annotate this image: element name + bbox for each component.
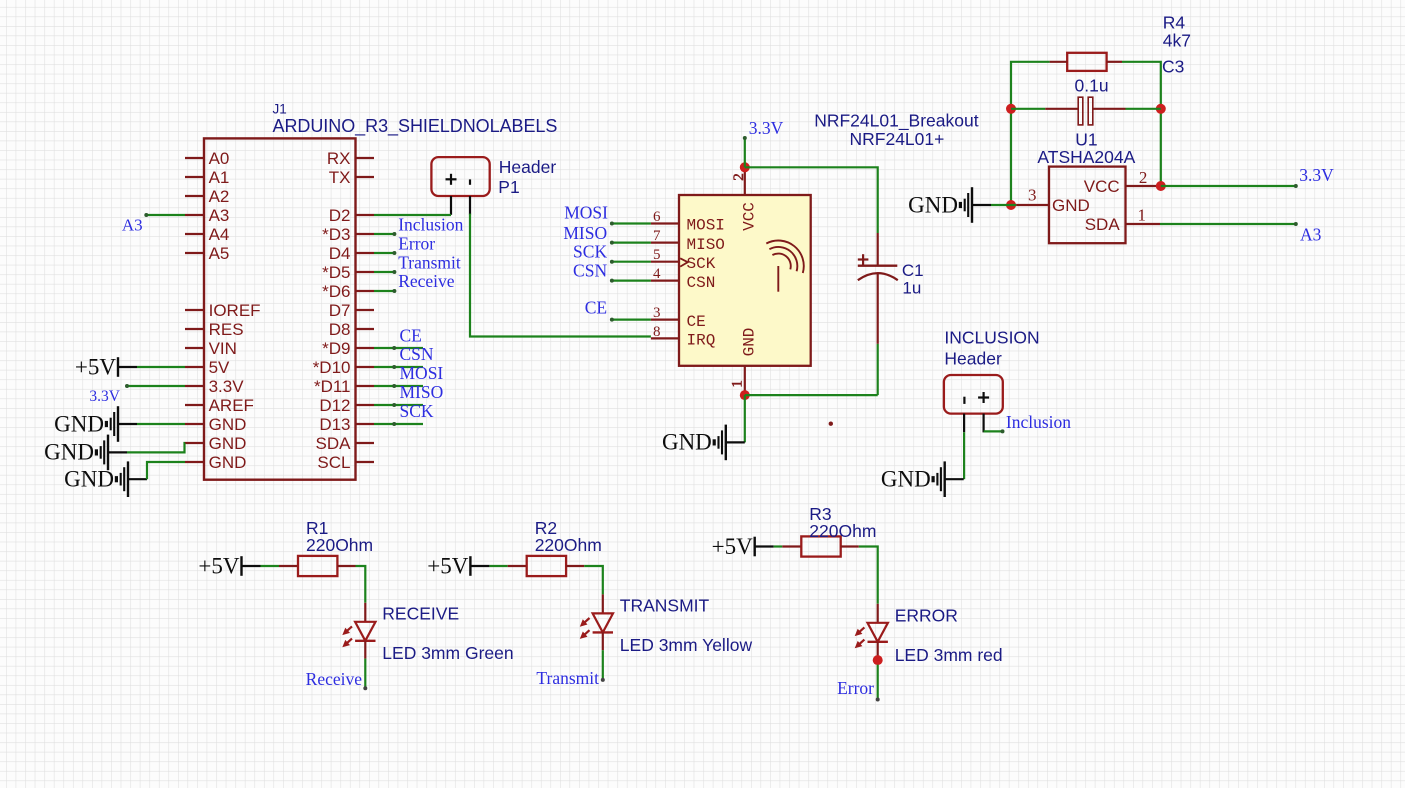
svg-text:A2: A2 [209, 187, 230, 206]
svg-text:TRANSMIT: TRANSMIT [620, 596, 710, 616]
svg-text:+5V: +5V [427, 553, 468, 578]
svg-text:GND: GND [662, 430, 712, 455]
svg-text:D2: D2 [329, 206, 351, 225]
svg-text:LED 3mm red: LED 3mm red [895, 645, 1003, 665]
svg-text:*D5: *D5 [322, 263, 350, 282]
svg-text:LED 3mm Green: LED 3mm Green [382, 643, 513, 663]
svg-text:SCK: SCK [687, 255, 716, 273]
svg-text:+5V: +5V [198, 553, 239, 578]
svg-text:GND: GND [54, 411, 104, 436]
svg-text:GND: GND [1052, 196, 1090, 215]
svg-text:4k7: 4k7 [1163, 31, 1191, 51]
svg-text:SCK: SCK [573, 242, 607, 262]
svg-text:MOSI: MOSI [564, 203, 608, 223]
svg-text:P1: P1 [498, 177, 519, 197]
svg-text:TX: TX [329, 168, 351, 187]
svg-text:3.3V: 3.3V [89, 388, 120, 405]
svg-text:GND: GND [908, 192, 958, 217]
svg-text:1: 1 [730, 380, 746, 388]
svg-text:CSN: CSN [400, 344, 434, 364]
svg-text:GND: GND [64, 467, 114, 492]
svg-text:RX: RX [327, 149, 351, 168]
svg-text:Header: Header [499, 157, 557, 177]
svg-text:5V: 5V [209, 358, 230, 377]
svg-text:Receive: Receive [398, 271, 455, 291]
svg-text:GND: GND [881, 467, 931, 492]
svg-text:MISO: MISO [563, 223, 607, 243]
svg-text:SCL: SCL [317, 453, 350, 472]
svg-text:SDA: SDA [316, 434, 352, 453]
svg-text:A3: A3 [1300, 225, 1322, 245]
svg-text:D8: D8 [329, 320, 351, 339]
svg-text:D7: D7 [329, 301, 351, 320]
svg-text:*D11: *D11 [314, 377, 351, 396]
svg-text:C3: C3 [1162, 57, 1184, 77]
svg-text:VCC: VCC [1084, 177, 1120, 196]
svg-text:*D3: *D3 [322, 225, 350, 244]
svg-text:6: 6 [653, 209, 661, 225]
svg-text:INCLUSION: INCLUSION [944, 328, 1039, 348]
svg-text:C1: C1 [902, 261, 924, 280]
svg-text:3: 3 [1028, 186, 1037, 205]
svg-text:5: 5 [653, 247, 661, 263]
svg-text:MOSI: MOSI [687, 217, 725, 235]
svg-text:A3: A3 [122, 216, 143, 235]
svg-text:*D10: *D10 [313, 358, 351, 377]
svg-text:Receive: Receive [306, 669, 363, 689]
svg-text:Error: Error [837, 678, 874, 698]
svg-text:4: 4 [653, 266, 661, 282]
svg-text:220Ohm: 220Ohm [306, 535, 373, 555]
svg-text:0.1u: 0.1u [1075, 76, 1109, 96]
svg-text:2: 2 [731, 173, 747, 181]
svg-text:AREF: AREF [209, 396, 254, 415]
svg-text:ATSHA204A: ATSHA204A [1037, 147, 1135, 167]
svg-text:A1: A1 [209, 168, 230, 187]
svg-text:GND: GND [209, 453, 247, 472]
svg-text:GND: GND [209, 415, 247, 434]
svg-text:GND: GND [741, 328, 759, 357]
svg-text:CSN: CSN [573, 261, 607, 281]
svg-text:7: 7 [653, 228, 661, 244]
svg-text:*D6: *D6 [322, 282, 350, 301]
svg-text:3.3V: 3.3V [1299, 165, 1334, 185]
svg-text:Error: Error [398, 234, 435, 254]
svg-text:Transmit: Transmit [536, 668, 599, 688]
svg-text:D4: D4 [329, 244, 351, 263]
svg-text:CE: CE [400, 325, 422, 345]
svg-text:MOSI: MOSI [400, 363, 444, 383]
svg-text:RES: RES [209, 320, 244, 339]
svg-text:+5V: +5V [712, 534, 753, 559]
svg-text:A4: A4 [209, 225, 230, 244]
svg-text:GND: GND [209, 434, 247, 453]
svg-text:A3: A3 [209, 206, 230, 225]
svg-text:3.3V: 3.3V [209, 377, 245, 396]
svg-text:GND: GND [44, 440, 94, 465]
svg-text:VIN: VIN [209, 339, 237, 358]
svg-text:A5: A5 [209, 244, 230, 263]
svg-text:1: 1 [1138, 206, 1147, 225]
svg-text:D12: D12 [319, 396, 350, 415]
svg-text:8: 8 [653, 324, 661, 340]
svg-text:3.3V: 3.3V [749, 118, 784, 138]
svg-text:A0: A0 [209, 149, 230, 168]
svg-text:J1: J1 [273, 102, 287, 117]
svg-text:+5V: +5V [75, 354, 116, 379]
svg-text:IRQ: IRQ [687, 332, 716, 350]
svg-text:Inclusion: Inclusion [398, 215, 463, 235]
svg-text:3: 3 [653, 305, 661, 321]
svg-text:*D9: *D9 [322, 339, 350, 358]
svg-text:2: 2 [1139, 168, 1148, 187]
svg-text:MISO: MISO [400, 382, 444, 402]
svg-text:ERROR: ERROR [895, 606, 958, 626]
svg-text:Inclusion: Inclusion [1006, 412, 1071, 432]
svg-text:SCK: SCK [400, 401, 434, 421]
svg-text:IOREF: IOREF [209, 301, 261, 320]
svg-text:VCC: VCC [741, 202, 759, 231]
svg-text:RECEIVE: RECEIVE [382, 603, 459, 623]
svg-text:LED 3mm Yellow: LED 3mm Yellow [620, 635, 753, 655]
svg-text:220Ohm: 220Ohm [535, 535, 602, 555]
svg-text:Transmit: Transmit [398, 253, 461, 273]
svg-text:MISO: MISO [687, 236, 725, 254]
svg-text:CE: CE [687, 313, 706, 331]
svg-text:ARDUINO_R3_SHIELDNOLABELS: ARDUINO_R3_SHIELDNOLABELS [273, 116, 558, 137]
svg-text:Header: Header [944, 349, 1002, 369]
svg-text:NRF24L01+: NRF24L01+ [850, 129, 945, 149]
svg-text:1u: 1u [902, 279, 921, 298]
svg-text:220Ohm: 220Ohm [809, 521, 876, 541]
svg-text:D13: D13 [319, 415, 350, 434]
svg-text:CE: CE [585, 298, 607, 318]
svg-text:CSN: CSN [687, 274, 716, 292]
svg-text:SDA: SDA [1085, 215, 1121, 234]
